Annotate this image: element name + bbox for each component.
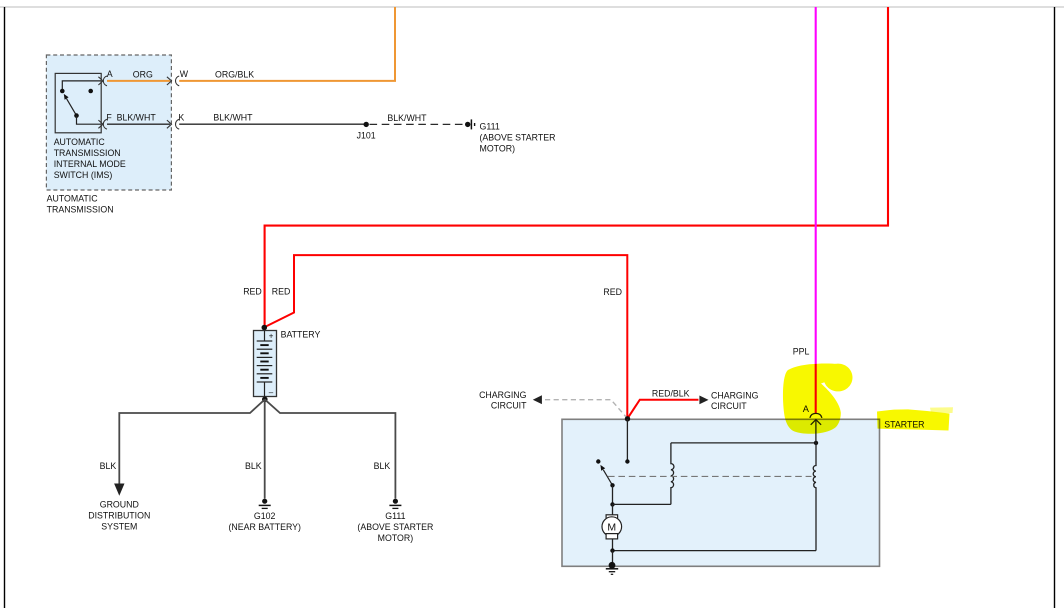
dashed mechanical linkage: [608, 475, 812, 477]
svg-text:(ABOVE STARTER: (ABOVE STARTER: [480, 132, 556, 142]
arrow to charging circuit left: [533, 395, 542, 404]
svg-text:SYSTEM: SYSTEM: [101, 521, 137, 531]
pin W connector symbol: [167, 76, 179, 86]
node solenoid contact right: [625, 459, 629, 463]
wire coil bottom to motor bottom: [613, 550, 817, 552]
node junction charging: [625, 416, 630, 421]
ground G102 symbol: [259, 499, 271, 509]
svg-text:TRANSMISSION: TRANSMISSION: [47, 205, 114, 215]
wire BLK/WHT F to K: [107, 123, 170, 125]
svg-text:CIRCUIT: CIRCUIT: [491, 400, 527, 410]
node solenoid contact left: [596, 459, 600, 463]
svg-text:CHARGING: CHARGING: [711, 391, 759, 401]
switch arm with arrowhead: [67, 99, 77, 116]
battery B1: [254, 331, 277, 398]
left page border line: [4, 7, 6, 608]
svg-text:TRANSMISSION: TRANSMISSION: [54, 148, 121, 158]
svg-text:BLK/WHT: BLK/WHT: [213, 113, 253, 123]
arrow to charging circuit right: [699, 396, 708, 405]
wire to starter ground: [612, 551, 614, 566]
svg-text:DISTRIBUTION: DISTRIBUTION: [88, 510, 150, 520]
node motor bottom junction: [610, 548, 614, 552]
highlighter blob at terminal A: [783, 364, 853, 434]
node at A vertical: [814, 441, 818, 445]
svg-text:MOTOR): MOTOR): [378, 533, 414, 543]
switch box IMS U1: [55, 73, 101, 132]
svg-text:BLK/WHT: BLK/WHT: [117, 112, 157, 122]
pin K connector symbol: [167, 119, 179, 129]
svg-text:BLK: BLK: [374, 461, 391, 471]
svg-text:(ABOVE STARTER: (ABOVE STARTER: [357, 522, 433, 532]
dashed wire to charging circuit left: [545, 400, 627, 418]
wire arm to motor node: [612, 485, 614, 504]
svg-text:(NEAR BATTERY): (NEAR BATTERY): [228, 522, 301, 532]
svg-text:J101: J101: [357, 131, 376, 141]
svg-text:AUTOMATIC: AUTOMATIC: [54, 137, 106, 147]
svg-text:BLK/WHT: BLK/WHT: [387, 113, 427, 123]
svg-text:A: A: [107, 69, 113, 79]
svg-text:RED/BLK: RED/BLK: [652, 388, 690, 398]
right page border line: [1054, 7, 1056, 608]
wire ORG/BLK from W up to top: [179, 7, 395, 81]
arrow to ground distribution: [114, 484, 124, 496]
wire inside IMS to pin F: [77, 116, 101, 125]
wire RED from battery to charging junction: [265, 255, 628, 417]
svg-text:RED: RED: [243, 287, 262, 297]
contact node upper-left: [60, 89, 65, 94]
pin F connector symbol: [98, 119, 107, 129]
wire BLK to ground distribution: [119, 399, 264, 484]
motor M1: [602, 504, 622, 550]
svg-text:ORG/BLK: ORG/BLK: [215, 70, 254, 80]
svg-text:G102: G102: [254, 511, 276, 521]
battery top node: [262, 325, 268, 331]
switch arm pivot node: [74, 113, 79, 118]
switch arm pivot node: [610, 483, 614, 487]
contact node upper-right: [88, 89, 93, 94]
dashed wire BLK/WHT J101 to G111: [370, 123, 467, 125]
terminal A connector arc: [810, 413, 822, 418]
wire RED/BLK to charging circuit right: [628, 400, 699, 419]
svg-text:CHARGING: CHARGING: [479, 390, 527, 400]
svg-text:+: +: [269, 331, 274, 340]
wire BLK to G102: [264, 399, 266, 498]
pin A connector symbol: [98, 76, 107, 86]
svg-text:RED: RED: [272, 287, 291, 297]
svg-text:M: M: [607, 521, 616, 533]
svg-text:BLK: BLK: [100, 461, 117, 471]
ground terminal G111 top: [465, 119, 475, 129]
svg-text:SWITCH (IMS): SWITCH (IMS): [54, 170, 113, 180]
coil L2 hold-in winding: [813, 443, 816, 551]
svg-text:BATTERY: BATTERY: [281, 330, 321, 340]
dashed enclosure AUTOMATIC TRANSMISSION: [46, 55, 171, 190]
wire coil top to A node: [671, 442, 816, 444]
svg-text:ORG: ORG: [133, 70, 153, 80]
ground G111 symbol: [389, 499, 401, 509]
svg-text:MOTOR): MOTOR): [480, 143, 516, 153]
svg-text:–: –: [269, 388, 274, 397]
svg-text:F: F: [106, 112, 112, 122]
top page border line: [0, 6, 1064, 8]
solenoid switch arm S1: [603, 470, 612, 486]
wire junction into starter: [626, 419, 628, 462]
svg-text:BLK: BLK: [245, 461, 262, 471]
wire ORG A to W: [107, 80, 170, 82]
highlighter swipe at STARTER: [877, 409, 950, 430]
terminal A arrow into starter: [811, 420, 821, 425]
node motor top junction: [610, 502, 614, 506]
svg-text:CIRCUIT: CIRCUIT: [711, 401, 747, 411]
svg-text:RED: RED: [603, 287, 622, 297]
highlighter faded streak: [930, 407, 953, 413]
svg-text:W: W: [180, 69, 189, 79]
svg-text:GROUND: GROUND: [100, 499, 139, 509]
svg-text:G111: G111: [385, 511, 405, 521]
svg-text:G111: G111: [480, 121, 500, 131]
coil L1 pull-in winding: [671, 443, 674, 505]
starter box: [562, 419, 880, 566]
svg-text:INTERNAL MODE: INTERNAL MODE: [54, 159, 126, 169]
wire BLK/WHT K to J101: [179, 123, 366, 125]
svg-text:AUTOMATIC: AUTOMATIC: [47, 194, 99, 204]
wire BLK to G111: [265, 399, 396, 498]
svg-text:K: K: [178, 112, 184, 122]
ground symbol starter: [606, 562, 618, 574]
svg-text:PPL: PPL: [793, 346, 810, 356]
wire inside IMS from pin A: [62, 81, 101, 89]
wire to pull-in coil bottom: [613, 503, 671, 505]
splice J101: [364, 122, 369, 127]
battery bottom node: [262, 397, 268, 403]
wire RED from top right to battery: [265, 7, 888, 326]
wire PPL from top: [815, 7, 817, 413]
